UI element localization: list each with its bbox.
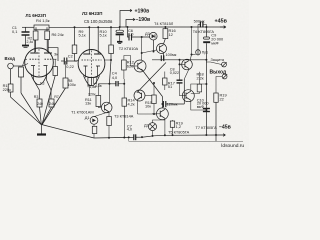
capacitor 100mk <box>160 55 162 61</box>
transistor T3 <box>134 90 145 101</box>
wire: right top rail +45v <box>120 26 226 28</box>
diode D1 <box>90 117 98 125</box>
resistor R5b 3k <box>53 67 58 76</box>
wire: ground bus diagonal <box>42 125 95 139</box>
star ground node wires <box>11 97 42 125</box>
tube L1 envelope <box>25 48 54 77</box>
tube L2 envelope <box>78 50 105 78</box>
transistor T4 <box>157 44 167 54</box>
resistor R9 <box>74 27 76 45</box>
tube L2 heater arc <box>84 76 100 86</box>
input terminal <box>8 63 14 69</box>
resistor R14 <box>123 84 125 98</box>
resistor in cathode (tube2) <box>88 78 92 86</box>
tube L1 heater arc <box>31 75 47 85</box>
resistor R5 (plate load a) <box>35 27 37 31</box>
capacitor C10 <box>203 108 210 110</box>
output terminal 2 <box>222 74 227 79</box>
wire: lower border line <box>129 137 243 141</box>
transistor T6 <box>182 59 193 70</box>
resistor R18 box <box>197 84 201 92</box>
resistor R2 (grid) <box>19 67 24 77</box>
tube L1 internals <box>30 53 54 66</box>
ground symbol (star) <box>41 125 43 134</box>
wire: C6 branch <box>128 27 130 37</box>
resistor R11 <box>96 96 101 107</box>
capacitor C8 <box>177 79 183 81</box>
diode D3 <box>150 32 158 40</box>
wire: -190v stub <box>126 20 131 28</box>
wire: left top rail <box>22 26 34 28</box>
wire: tube2 cathode leads <box>85 66 87 78</box>
capacitor C4 <box>98 83 116 85</box>
capacitor C1 <box>25 27 27 31</box>
transistor T7 <box>182 90 194 102</box>
wire: +45v arrow end <box>220 26 226 29</box>
resistor R16 <box>164 27 166 29</box>
transistor T1 <box>101 102 112 113</box>
wire: to output terminal 1 <box>206 62 221 65</box>
wire: output bus <box>205 27 207 37</box>
diode D2 <box>149 123 157 131</box>
wire W1 <box>152 59 206 61</box>
capacitor C5 <box>119 27 121 30</box>
resistor R4 <box>34 25 49 30</box>
resistor R15 <box>152 95 156 104</box>
ground (C1) <box>22 45 29 47</box>
capacitor C7 <box>133 134 135 140</box>
resistor R8 <box>65 61 67 78</box>
wire: +190v stub <box>120 11 127 28</box>
wire: T4 emitter to W1 <box>162 52 164 59</box>
wire: tube2 plate feeds <box>88 27 90 54</box>
wire: tube2 grid lead right <box>105 59 111 61</box>
resistor R17 <box>163 78 167 85</box>
resistor R10 <box>110 27 112 45</box>
resistor R3 <box>37 99 42 107</box>
resistor below D1 <box>92 126 97 133</box>
capacitor 120mk <box>161 103 164 105</box>
output terminal 1 <box>222 62 227 67</box>
resistor R19 (1,2) <box>170 121 174 127</box>
resistor R15b <box>107 117 112 126</box>
tube L2 internals <box>82 54 102 66</box>
wire: tube1 plate leads <box>34 40 36 53</box>
transistor T2 <box>134 60 146 72</box>
capacitor C9 <box>204 37 210 39</box>
wire: plate1 to C2 <box>48 48 58 61</box>
resistor R12 <box>122 60 127 70</box>
capacitor C2 <box>61 60 64 62</box>
resistor R20 (22) <box>214 93 218 102</box>
resistor R1 <box>10 69 12 84</box>
wire: tube1 cathode leads <box>33 66 35 80</box>
resistor R7 <box>49 99 54 107</box>
wire: tube1 grid lead right <box>53 58 56 60</box>
wire: grid to tube <box>23 64 29 67</box>
resistor R6 (plate load b) <box>46 27 48 31</box>
wire: bottom rail <box>94 136 134 139</box>
wire: tube1 grid lead left <box>23 59 28 66</box>
transistor T5 <box>157 108 169 120</box>
wire: X crossing <box>142 69 163 97</box>
